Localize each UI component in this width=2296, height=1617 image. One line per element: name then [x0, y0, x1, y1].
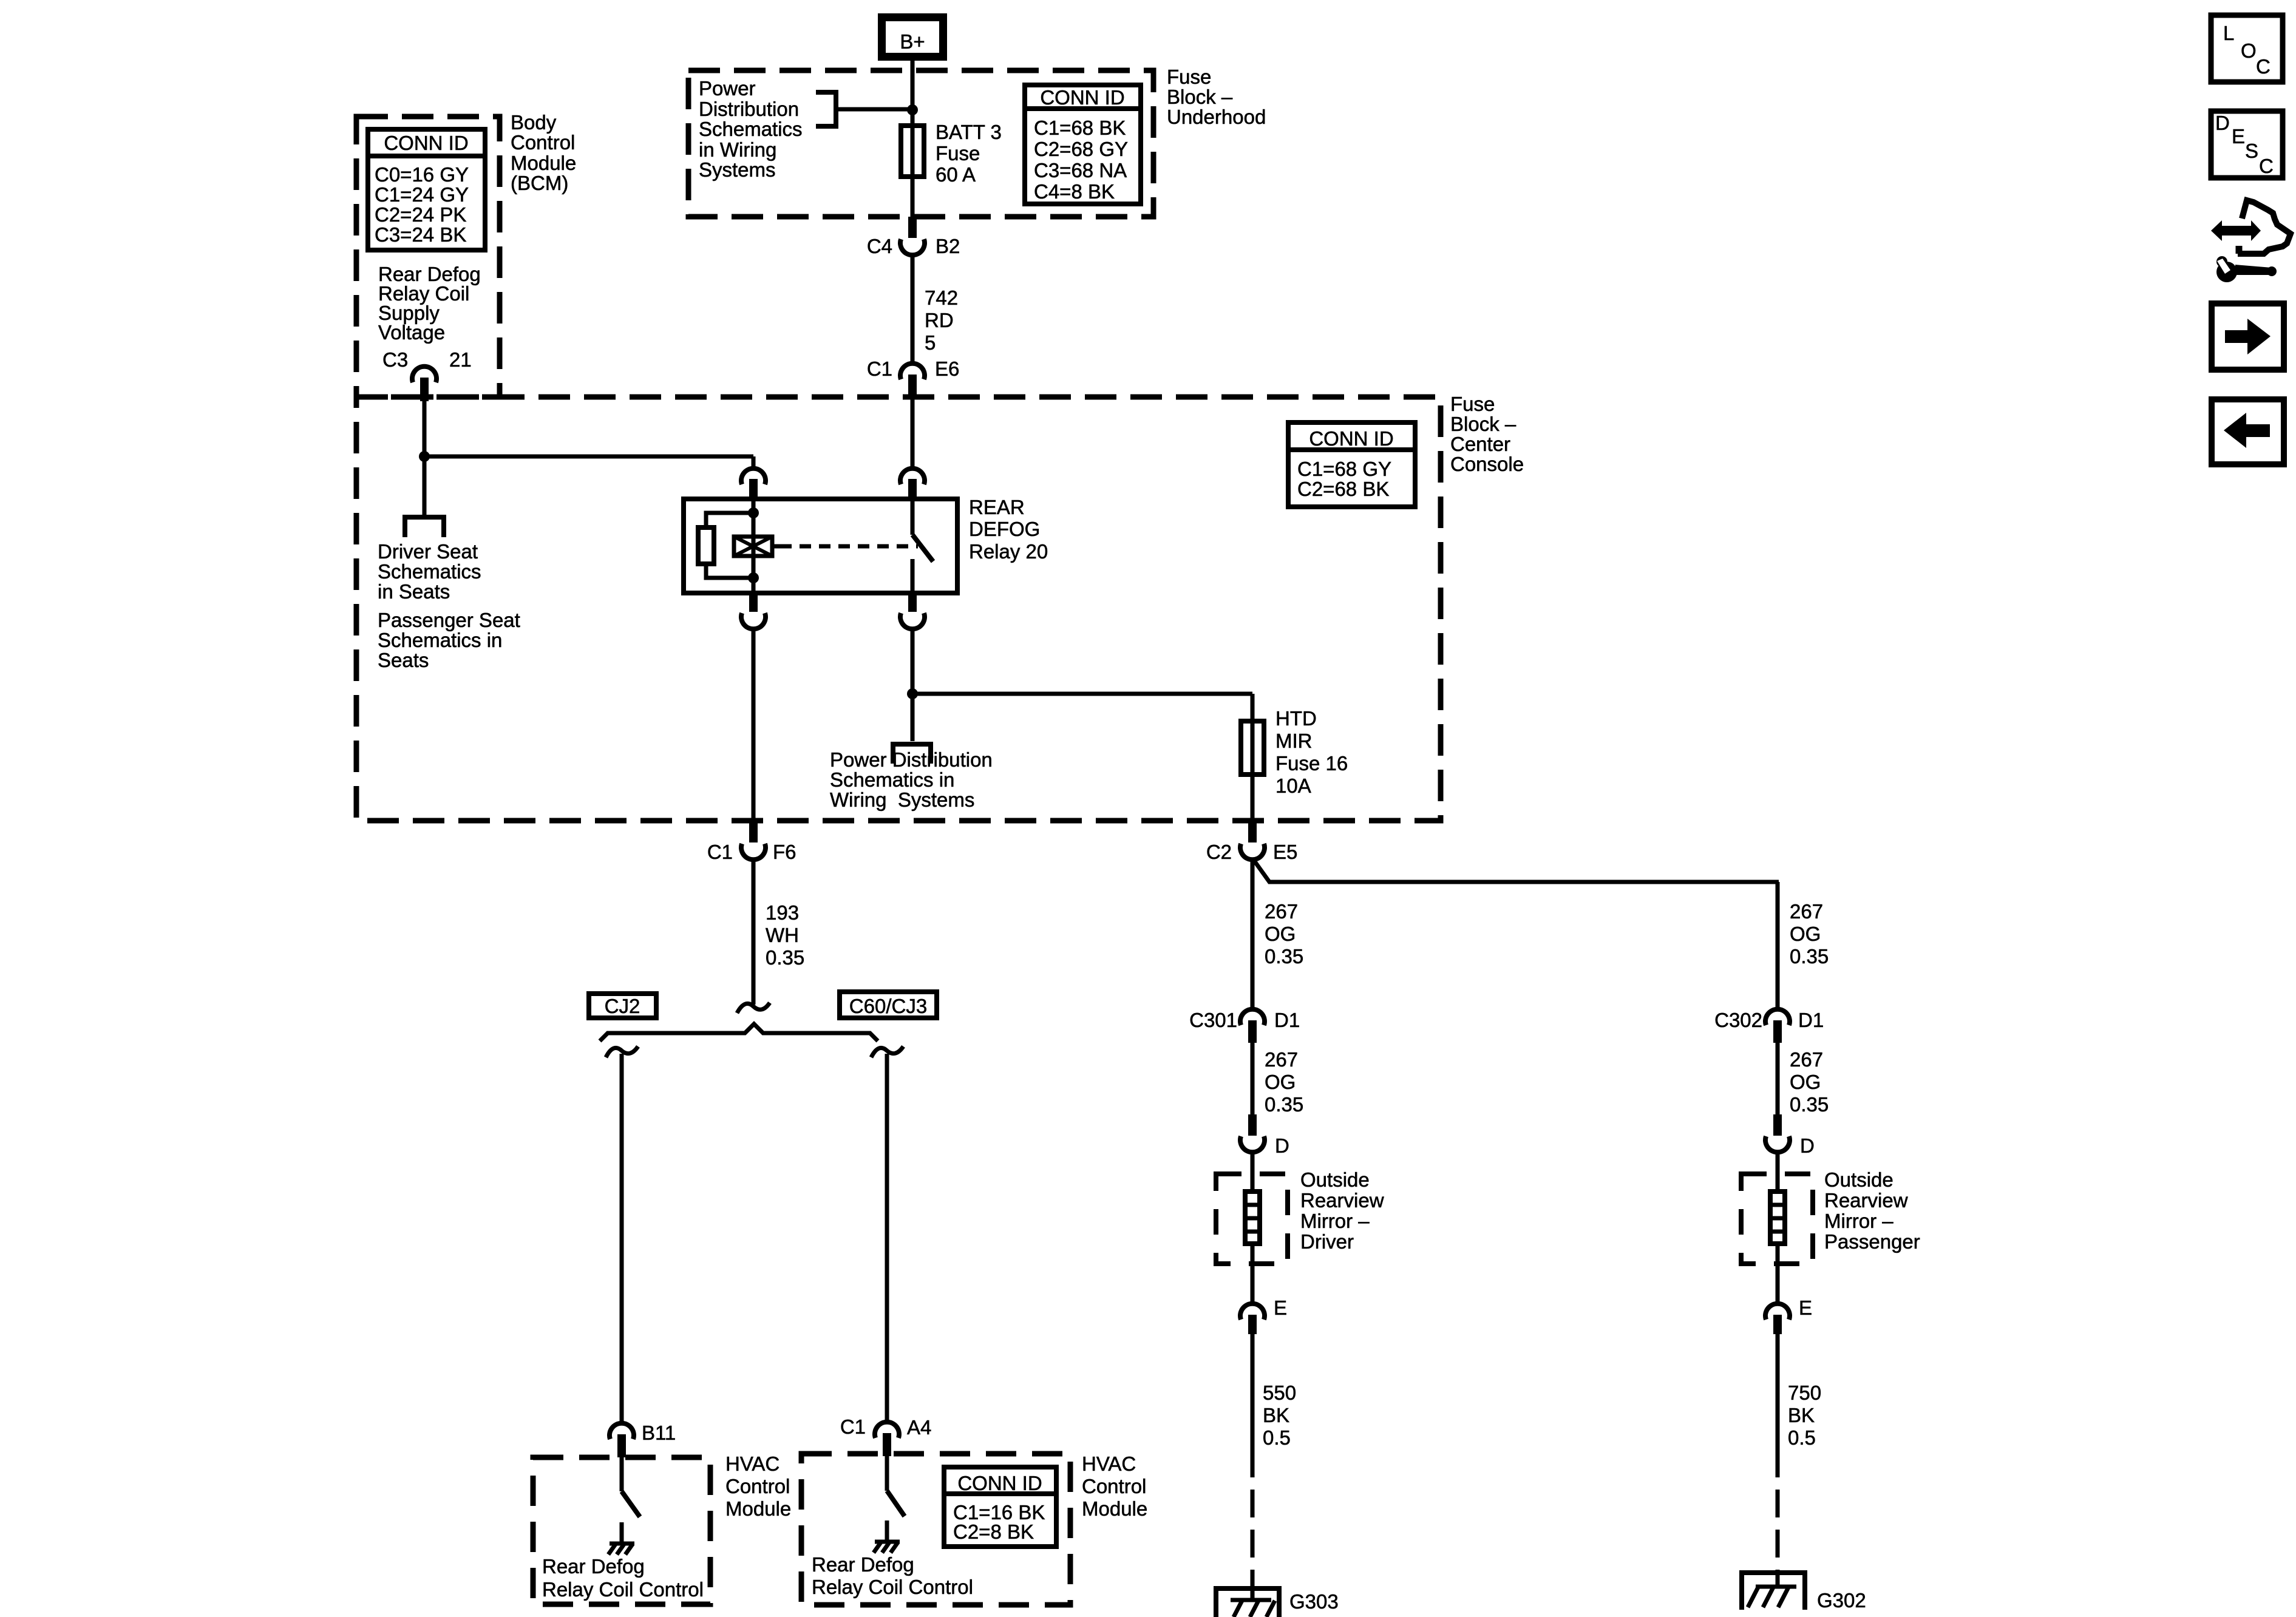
svg-text:DEFOG: DEFOG: [969, 518, 1040, 540]
svg-text:Driver: Driver: [1300, 1230, 1354, 1253]
svg-text:E: E: [1799, 1297, 1812, 1319]
heater element mirror driver: [1245, 1192, 1260, 1244]
splice end mark: [737, 1003, 770, 1013]
svg-text:Wiring Systems: Wiring Systems: [830, 788, 974, 811]
svg-text:Control: Control: [725, 1475, 790, 1497]
reference bracket to power distribution: [816, 92, 836, 126]
svg-text:in Wiring: in Wiring: [699, 138, 776, 161]
svg-text:O: O: [2241, 39, 2257, 62]
relay pin top-left stub: [749, 479, 758, 499]
wire through fuse BATT 3: [911, 126, 915, 217]
label Fuse Block - Center Console: [1450, 393, 1524, 475]
svg-text:S: S: [2245, 140, 2258, 162]
svg-text:C1=24 GY: C1=24 GY: [375, 183, 469, 206]
wire branch to passenger mirror: [1252, 858, 1779, 882]
label HVAC Control Module (right): [1082, 1453, 1147, 1520]
HVAC CONN ID table: [944, 1467, 1056, 1547]
svg-text:Rearview: Rearview: [1824, 1189, 1908, 1212]
svg-text:267: 267: [1265, 900, 1298, 923]
chassis ground (left HVAC): [608, 1544, 634, 1554]
relay pin top-left arc: [741, 469, 766, 484]
icon back arrow box: [2212, 399, 2284, 464]
svg-text:Outside: Outside: [1300, 1168, 1370, 1191]
svg-text:C301: C301: [1189, 1009, 1237, 1031]
svg-text:BATT 3: BATT 3: [936, 121, 1002, 143]
svg-text:Control: Control: [511, 131, 575, 154]
connector C1/E6 stub: [908, 375, 917, 398]
svg-text:C2=8 BK: C2=8 BK: [953, 1520, 1034, 1543]
branch hook left: [606, 1046, 638, 1057]
connector C1/A4 stub: [883, 1433, 891, 1456]
svg-text:Module: Module: [511, 152, 576, 174]
svg-text:Mirror –: Mirror –: [1824, 1210, 1894, 1232]
svg-text:C4: C4: [867, 235, 892, 257]
svg-text:10A: 10A: [1275, 775, 1311, 797]
icon LOC box: [2211, 15, 2283, 82]
connector C2/E5 stub: [1248, 819, 1257, 842]
icon DESC box: [2211, 111, 2283, 178]
splice label box C60/CJ3: [840, 992, 937, 1018]
label Body Control Module (BCM): [511, 111, 576, 194]
connector C2/E5 arc: [1240, 844, 1265, 859]
svg-text:267: 267: [1265, 1048, 1298, 1071]
underhood CONN ID table: [1025, 85, 1141, 204]
svg-text:B+: B+: [900, 30, 925, 53]
svg-text:HVAC: HVAC: [725, 1453, 779, 1475]
svg-text:C1=68 BK: C1=68 BK: [1034, 117, 1126, 139]
connector C4/B2 arc: [900, 239, 925, 255]
svg-text:0.35: 0.35: [1790, 1093, 1829, 1116]
svg-text:(BCM): (BCM): [511, 172, 568, 194]
svg-text:D: D: [1800, 1134, 1815, 1157]
svg-text:750: 750: [1788, 1381, 1821, 1404]
relay REAR DEFOG Relay 20 box: [684, 499, 957, 593]
HVAC control module left dashed box: [533, 1457, 710, 1604]
svg-text:E: E: [2232, 125, 2245, 147]
wire element to E (driver): [1251, 1244, 1255, 1303]
svg-text:Relay Coil Control: Relay Coil Control: [812, 1576, 973, 1598]
svg-text:RD: RD: [925, 309, 954, 331]
svg-text:Module: Module: [725, 1497, 791, 1520]
svg-text:Block –: Block –: [1450, 413, 1517, 435]
wire relay switch to HTD junction: [911, 628, 915, 741]
svg-text:Driver Seat: Driver Seat: [378, 540, 478, 563]
svg-text:C4=8 BK: C4=8 BK: [1034, 180, 1115, 203]
svg-text:267: 267: [1790, 900, 1823, 923]
power node B+: [882, 18, 943, 57]
svg-text:G303: G303: [1289, 1590, 1339, 1613]
svg-text:C1: C1: [840, 1415, 866, 1438]
connector E stub (driver): [1248, 1315, 1257, 1334]
svg-text:5: 5: [925, 331, 936, 354]
svg-text:C3: C3: [382, 348, 408, 371]
svg-text:B2: B2: [936, 235, 960, 257]
svg-text:WH: WH: [766, 924, 799, 946]
fuse BATT 3 60A: [901, 121, 1002, 186]
relay coil loop wires: [706, 513, 753, 527]
reference bracket power distribution (lower): [893, 744, 931, 764]
connector E arc (driver): [1240, 1304, 1265, 1320]
svg-text:Fuse: Fuse: [936, 142, 980, 164]
body control module BCM dashed box: [356, 117, 500, 397]
svg-text:Center: Center: [1450, 433, 1510, 455]
connector C301/D1 stub: [1248, 1020, 1257, 1043]
wire C60/CJ3 branch to C1/A4: [885, 1054, 889, 1421]
svg-text:Body: Body: [511, 111, 557, 134]
wire 750 BK 0.5: [1778, 1334, 1821, 1449]
wire B+ down to fuse BATT 3: [911, 61, 915, 126]
svg-text:Relay 20: Relay 20: [969, 540, 1048, 563]
label Outside Rearview Mirror - Passenger: [1824, 1168, 1920, 1253]
wire element to E (passenger): [1776, 1244, 1780, 1303]
svg-text:D: D: [1275, 1134, 1289, 1157]
svg-text:Passenger Seat: Passenger Seat: [378, 609, 520, 631]
wire junction to relay coil: [424, 455, 753, 459]
svg-text:REAR: REAR: [969, 496, 1025, 518]
svg-text:Schematics: Schematics: [378, 560, 481, 583]
svg-text:Power Distribution: Power Distribution: [830, 748, 993, 771]
switch rear defog relay coil control (right): [885, 1456, 889, 1491]
svg-text:Fuse: Fuse: [1167, 66, 1211, 88]
relay pin bottom-left arc: [741, 613, 766, 629]
svg-text:Console: Console: [1450, 453, 1524, 475]
connector C1/E6 arc: [900, 364, 925, 379]
relay coil feed wire: [752, 499, 756, 593]
connector C4/B2 stub: [908, 217, 917, 238]
svg-text:BK: BK: [1263, 1404, 1289, 1426]
relay actuation dashed link: [780, 544, 918, 549]
connector E stub (passenger): [1773, 1315, 1782, 1334]
label Fuse Block - Underhood: [1167, 66, 1266, 128]
label HVAC Control Module (left): [725, 1453, 791, 1520]
connector E arc (passenger): [1765, 1304, 1790, 1320]
svg-text:Rear Defog: Rear Defog: [812, 1553, 914, 1576]
svg-text:HVAC: HVAC: [1082, 1453, 1136, 1475]
dashed ground wire (passenger): [1776, 1449, 1780, 1570]
label Driver Seat Schematics in Seats: [378, 540, 481, 603]
relay coil X-box symbol: [734, 537, 780, 556]
svg-text:C3=24 BK: C3=24 BK: [375, 223, 466, 246]
ground G303: [1214, 1586, 1339, 1617]
svg-text:B11: B11: [642, 1422, 676, 1444]
svg-text:E5: E5: [1273, 841, 1297, 863]
connector D arc (passenger): [1765, 1136, 1790, 1152]
icon diagnostic hand with arrow and wrench: [2211, 200, 2291, 282]
switch rear defog relay coil control (left): [620, 1457, 624, 1491]
wire E6 to relay pin top-right: [911, 398, 915, 467]
svg-text:Systems: Systems: [699, 158, 776, 181]
svg-text:C: C: [2259, 155, 2274, 177]
junction BCM branch: [419, 451, 430, 462]
connector D arc (driver): [1240, 1136, 1265, 1152]
relay switch blade: [912, 535, 933, 561]
fuse block underhood dashed box: [688, 70, 1153, 217]
svg-text:Voltage: Voltage: [378, 321, 445, 344]
svg-text:C302: C302: [1714, 1009, 1762, 1031]
svg-text:CONN ID: CONN ID: [1309, 427, 1393, 450]
svg-text:C1: C1: [707, 841, 733, 863]
wire label 267 OG 0.35 (driver lower): [1252, 1043, 1303, 1116]
svg-text:CJ2: CJ2: [605, 995, 640, 1017]
svg-text:267: 267: [1790, 1048, 1823, 1071]
HVAC control module right dashed box: [801, 1454, 1070, 1605]
connector D stub (passenger): [1773, 1114, 1782, 1136]
svg-text:Control: Control: [1082, 1475, 1146, 1497]
svg-text:C: C: [2256, 55, 2271, 78]
svg-text:0.5: 0.5: [1788, 1426, 1816, 1449]
ground G302: [1739, 1570, 1866, 1612]
svg-text:in Seats: in Seats: [378, 580, 450, 603]
svg-text:Rear Defog: Rear Defog: [542, 1555, 645, 1578]
svg-text:CONN ID: CONN ID: [384, 132, 468, 154]
BCM terminal C3/21 arc: [412, 367, 436, 382]
wire CJ2 branch to B11: [620, 1054, 624, 1422]
svg-text:E6: E6: [935, 358, 959, 380]
svg-text:0.35: 0.35: [766, 946, 804, 969]
svg-text:OG: OG: [1265, 1071, 1296, 1093]
svg-text:Schematics in: Schematics in: [830, 768, 954, 791]
fuse HTD MIR Fuse 16 10A: [1241, 707, 1348, 797]
svg-text:C0=16 GY: C0=16 GY: [375, 163, 469, 186]
note Power Distribution Schematics in Wiring Systems (top): [699, 77, 803, 181]
fuse block center console dashed box: [356, 397, 1441, 821]
svg-text:C1=68 GY: C1=68 GY: [1297, 458, 1391, 480]
console CONN ID table: [1288, 422, 1415, 507]
junction at B+ feed: [907, 104, 918, 115]
splice label box CJ2: [589, 994, 656, 1018]
connector C301/D1 arc: [1240, 1009, 1265, 1025]
branch hook right: [871, 1046, 903, 1057]
connector C302/D1 arc: [1765, 1009, 1790, 1025]
splice brace: [600, 1024, 878, 1041]
svg-text:HTD: HTD: [1275, 707, 1317, 730]
svg-text:Block –: Block –: [1167, 86, 1233, 108]
relay pin bottom-right arc: [900, 613, 925, 629]
svg-text:C3=68 NA: C3=68 NA: [1034, 159, 1127, 181]
svg-text:C1: C1: [867, 358, 892, 380]
svg-text:Seats: Seats: [378, 649, 429, 671]
wire 550 BK 0.5: [1252, 1334, 1296, 1449]
svg-text:MIR: MIR: [1275, 730, 1313, 752]
svg-text:C2=68 BK: C2=68 BK: [1297, 478, 1389, 500]
wire BCM to junction: [423, 401, 427, 517]
svg-text:F6: F6: [773, 841, 796, 863]
wire junction to HTD fuse: [912, 692, 1252, 696]
relay pin top-right stub: [908, 479, 917, 499]
svg-text:742: 742: [925, 286, 958, 309]
svg-text:0.35: 0.35: [1265, 1093, 1303, 1116]
relay pin bottom-left stub: [749, 593, 758, 612]
svg-text:D1: D1: [1274, 1009, 1300, 1031]
svg-text:193: 193: [766, 901, 799, 924]
connector B11 arc: [610, 1423, 634, 1439]
relay switch lower wire: [911, 559, 915, 593]
svg-text:Distribution: Distribution: [699, 98, 799, 120]
svg-text:CONN ID: CONN ID: [957, 1472, 1042, 1494]
wire label 267 OG 0.35 (passenger upper): [1790, 900, 1829, 968]
wire relay to C1/F6: [752, 628, 756, 824]
svg-text:Schematics in: Schematics in: [378, 629, 502, 651]
label Outside Rearview Mirror - Driver: [1300, 1168, 1384, 1253]
svg-text:BK: BK: [1788, 1404, 1815, 1426]
svg-text:Module: Module: [1082, 1497, 1147, 1520]
label Rear Defog Relay Coil Supply Voltage: [378, 263, 481, 344]
svg-text:L: L: [2223, 22, 2234, 44]
dashed ground wire (driver): [1251, 1449, 1255, 1586]
svg-text:OG: OG: [1790, 1071, 1821, 1093]
svg-text:OG: OG: [1265, 923, 1296, 945]
relay switch upper wire: [911, 499, 915, 535]
wire into mirror element (passenger): [1776, 1150, 1780, 1192]
note Power Distribution Schematics in Wiring Systems (lower): [830, 748, 993, 811]
svg-text:C2: C2: [1206, 841, 1232, 863]
svg-text:G302: G302: [1817, 1589, 1866, 1612]
wire 193 WH 0.35: [753, 861, 804, 1005]
connector C1/F6 arc: [741, 844, 766, 859]
svg-text:E: E: [1274, 1297, 1287, 1319]
wire into mirror element (driver): [1251, 1150, 1255, 1192]
label Rear Defog Relay Coil Control (left): [542, 1555, 704, 1601]
svg-text:D: D: [2215, 112, 2230, 134]
label Rear Defog Relay Coil Control (right): [812, 1553, 973, 1598]
svg-text:0.5: 0.5: [1263, 1426, 1291, 1449]
svg-text:Mirror –: Mirror –: [1300, 1210, 1370, 1232]
svg-text:Relay Coil Control: Relay Coil Control: [542, 1578, 704, 1601]
svg-text:Outside: Outside: [1824, 1168, 1894, 1191]
svg-text:C2=24 PK: C2=24 PK: [375, 203, 466, 226]
svg-text:A4: A4: [907, 1416, 931, 1439]
svg-text:D1: D1: [1798, 1009, 1824, 1031]
label Passenger Seat Schematics in Seats: [378, 609, 520, 671]
junction HTD branch: [907, 688, 918, 699]
svg-text:0.35: 0.35: [1265, 945, 1303, 968]
relay pin top-right arc: [900, 469, 925, 484]
wire label 267 OG 0.35 (driver upper): [1265, 900, 1303, 968]
svg-text:Underhood: Underhood: [1167, 106, 1266, 128]
svg-text:Passenger: Passenger: [1824, 1230, 1920, 1253]
svg-text:Schematics: Schematics: [699, 118, 803, 140]
wire bracket to B+ node: [836, 107, 911, 112]
heater element mirror passenger: [1770, 1192, 1785, 1244]
svg-text:Fuse: Fuse: [1450, 393, 1495, 415]
junction coil top: [748, 507, 759, 518]
svg-text:60 A: 60 A: [936, 163, 976, 186]
connector C1/A4 arc: [875, 1422, 899, 1438]
svg-text:Power: Power: [699, 77, 756, 100]
svg-text:Rearview: Rearview: [1300, 1189, 1384, 1212]
svg-text:0.35: 0.35: [1790, 945, 1829, 968]
wire 742 RD 5: [912, 254, 958, 362]
connector C1/F6 stub: [749, 819, 758, 842]
resistor relay coil suppression: [698, 527, 714, 564]
chassis ground (right HVAC): [874, 1542, 900, 1553]
BCM CONN ID table: [368, 129, 485, 250]
label REAR DEFOG Relay 20: [969, 496, 1048, 563]
svg-text:C2=68 GY: C2=68 GY: [1034, 138, 1128, 160]
icon forward arrow box: [2212, 303, 2284, 370]
outside rearview mirror driver dashed box: [1216, 1174, 1288, 1264]
wire C2/E5 to C301: [1251, 858, 1255, 1008]
svg-text:550: 550: [1263, 1381, 1296, 1404]
junction coil bottom: [748, 572, 759, 583]
outside rearview mirror passenger dashed box: [1741, 1174, 1813, 1264]
connector C302/D1 stub: [1773, 1020, 1782, 1043]
svg-text:Fuse 16: Fuse 16: [1275, 752, 1348, 775]
svg-text:CONN ID: CONN ID: [1040, 86, 1124, 109]
relay pin bottom-right stub: [908, 593, 917, 612]
svg-text:C60/CJ3: C60/CJ3: [849, 995, 927, 1017]
connector D stub (driver): [1248, 1114, 1257, 1136]
connector B11 stub: [617, 1434, 626, 1457]
reference bracket driver seat: [405, 517, 444, 537]
svg-text:21: 21: [449, 348, 472, 371]
svg-text:OG: OG: [1790, 923, 1821, 945]
wire label 267 OG 0.35 (passenger lower): [1778, 1043, 1829, 1116]
BCM terminal C3/21 stub: [420, 378, 429, 401]
